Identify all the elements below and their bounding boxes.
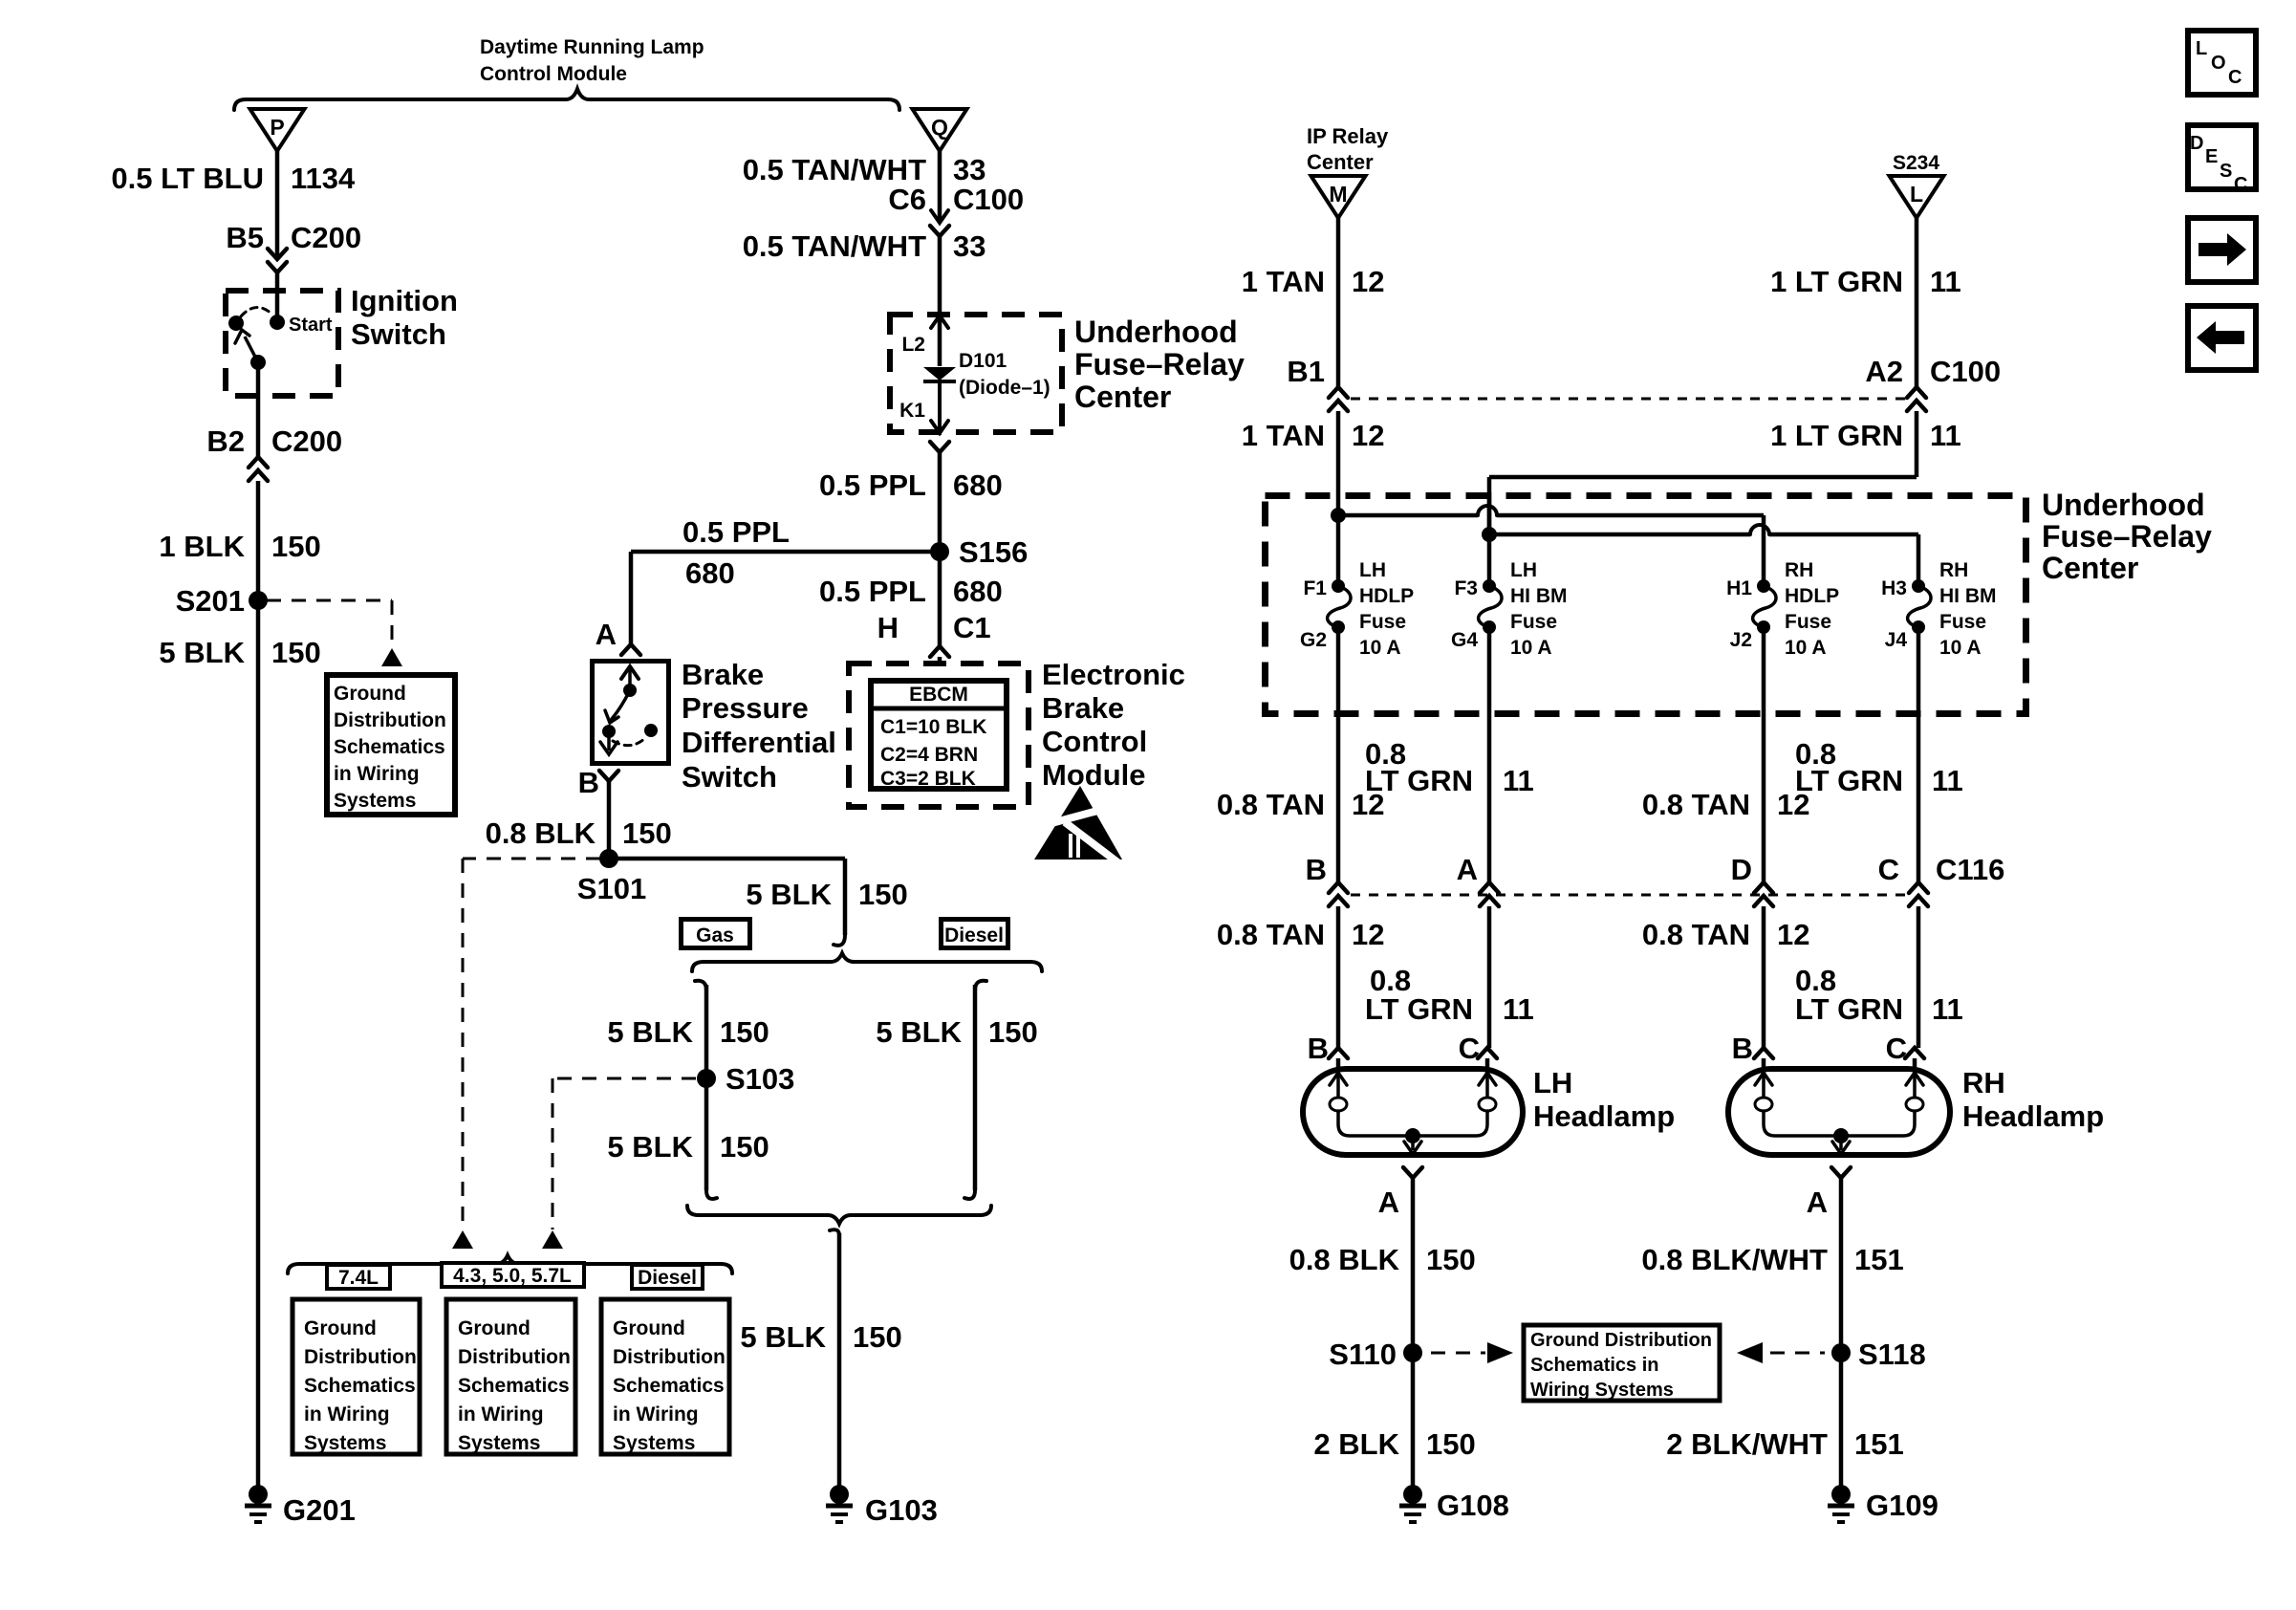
svg-text:1 BLK: 1 BLK [159, 530, 245, 563]
svg-text:150: 150 [853, 1320, 902, 1354]
svg-text:5 BLK: 5 BLK [876, 1015, 962, 1049]
svg-text:0.8 TAN: 0.8 TAN [1217, 918, 1325, 951]
svg-text:C: C [1878, 853, 1899, 886]
svg-text:S: S [2220, 161, 2232, 182]
svg-text:A: A [1807, 1186, 1828, 1219]
svg-text:150: 150 [720, 1015, 769, 1049]
svg-text:LT GRN: LT GRN [1795, 764, 1903, 797]
svg-text:1 TAN: 1 TAN [1242, 419, 1325, 452]
svg-text:11: 11 [1932, 992, 1963, 1026]
svg-text:A2: A2 [1865, 355, 1903, 388]
svg-text:Start: Start [289, 315, 333, 336]
svg-text:12: 12 [1352, 419, 1384, 452]
svg-text:L: L [1910, 182, 1923, 207]
svg-text:Ground: Ground [613, 1317, 685, 1339]
svg-text:0.5 TAN/WHT: 0.5 TAN/WHT [743, 153, 926, 186]
svg-text:B5: B5 [226, 221, 264, 254]
svg-text:Brake: Brake [682, 658, 764, 691]
svg-text:G103: G103 [865, 1493, 938, 1527]
svg-text:1134: 1134 [291, 162, 356, 195]
svg-text:C: C [2234, 174, 2247, 195]
svg-text:S110: S110 [1329, 1338, 1397, 1371]
svg-text:150: 150 [622, 816, 672, 850]
svg-text:L: L [2196, 38, 2207, 59]
svg-text:S118: S118 [1858, 1338, 1926, 1371]
svg-text:S234: S234 [1893, 152, 1939, 174]
svg-text:Systems: Systems [334, 790, 416, 812]
svg-text:A: A [596, 618, 617, 651]
svg-text:Differential: Differential [682, 726, 836, 759]
svg-text:5 BLK: 5 BLK [159, 636, 245, 669]
svg-text:in Wiring: in Wiring [334, 763, 420, 785]
svg-text:150: 150 [271, 636, 321, 669]
svg-text:G109: G109 [1866, 1489, 1939, 1522]
svg-text:0.8 TAN: 0.8 TAN [1642, 788, 1750, 821]
svg-text:F3: F3 [1454, 577, 1478, 599]
svg-text:Systems: Systems [304, 1432, 386, 1454]
svg-text:Diesel: Diesel [638, 1267, 697, 1289]
svg-text:Switch: Switch [682, 760, 777, 794]
svg-text:G201: G201 [283, 1493, 356, 1527]
svg-text:Control: Control [1042, 725, 1147, 758]
svg-text:7.4L: 7.4L [338, 1267, 379, 1289]
svg-text:in Wiring: in Wiring [304, 1403, 390, 1425]
svg-text:Module: Module [1042, 758, 1146, 792]
svg-text:J4: J4 [1885, 629, 1908, 651]
svg-text:Underhood: Underhood [2042, 488, 2205, 522]
svg-text:E: E [2205, 146, 2218, 167]
svg-text:Distribution: Distribution [458, 1346, 571, 1368]
svg-text:Schematics in: Schematics in [1530, 1355, 1659, 1376]
svg-text:G2: G2 [1300, 629, 1327, 651]
svg-text:12: 12 [1352, 265, 1384, 298]
svg-text:Systems: Systems [613, 1432, 695, 1454]
svg-text:B2: B2 [206, 424, 245, 458]
svg-text:A: A [1457, 853, 1478, 886]
svg-text:HI BM: HI BM [1510, 585, 1568, 607]
svg-text:Wiring Systems: Wiring Systems [1530, 1380, 1674, 1401]
svg-text:in Wiring: in Wiring [613, 1403, 699, 1425]
svg-text:150: 150 [858, 878, 908, 911]
svg-text:680: 680 [953, 468, 1003, 502]
svg-text:C1=10 BLK: C1=10 BLK [880, 716, 986, 738]
svg-text:EBCM: EBCM [909, 684, 968, 706]
svg-text:Daytime Running Lamp: Daytime Running Lamp [480, 36, 704, 58]
svg-text:C2=4 BRN: C2=4 BRN [880, 744, 978, 766]
svg-text:0.5 LT BLU: 0.5 LT BLU [111, 162, 264, 195]
svg-text:2 BLK: 2 BLK [1313, 1427, 1399, 1461]
svg-text:Gas: Gas [696, 925, 734, 946]
svg-text:LT GRN: LT GRN [1795, 992, 1903, 1026]
svg-text:Fuse: Fuse [1359, 611, 1406, 633]
svg-text:B: B [1308, 1032, 1329, 1065]
svg-text:HDLP: HDLP [1359, 585, 1414, 607]
svg-text:Schematics: Schematics [334, 736, 445, 758]
svg-text:Pressure: Pressure [682, 691, 809, 725]
svg-text:Center: Center [1074, 380, 1171, 414]
svg-text:151: 151 [1854, 1427, 1904, 1461]
svg-text:RH: RH [1785, 559, 1813, 581]
svg-text:Q: Q [931, 115, 948, 140]
svg-text:Brake: Brake [1042, 691, 1124, 725]
svg-text:Fuse: Fuse [1939, 611, 1986, 633]
svg-text:S101: S101 [577, 872, 646, 905]
svg-text:150: 150 [1426, 1427, 1476, 1461]
svg-text:H3: H3 [1881, 577, 1907, 599]
svg-text:C100: C100 [1930, 355, 2001, 388]
svg-text:G108: G108 [1437, 1489, 1509, 1522]
svg-text:J2: J2 [1730, 629, 1752, 651]
svg-text:11: 11 [1503, 992, 1534, 1026]
svg-text:1 TAN: 1 TAN [1242, 265, 1325, 298]
svg-text:11: 11 [1932, 764, 1963, 797]
svg-text:B: B [578, 766, 599, 799]
svg-text:LH: LH [1533, 1066, 1572, 1099]
svg-text:0.8 BLK/WHT: 0.8 BLK/WHT [1641, 1243, 1828, 1276]
svg-text:Fuse: Fuse [1785, 611, 1831, 633]
svg-text:LT GRN: LT GRN [1365, 764, 1473, 797]
svg-text:A: A [1378, 1186, 1399, 1219]
svg-text:11: 11 [1503, 764, 1534, 797]
svg-text:Distribution: Distribution [613, 1346, 726, 1368]
svg-text:Distribution: Distribution [304, 1346, 417, 1368]
svg-text:11: 11 [1930, 265, 1961, 298]
svg-text:10 A: 10 A [1359, 637, 1401, 659]
svg-text:Switch: Switch [351, 317, 446, 351]
svg-text:0.5 PPL: 0.5 PPL [819, 575, 926, 608]
svg-text:C3=2 BLK: C3=2 BLK [880, 768, 976, 790]
svg-text:Ground Distribution: Ground Distribution [1530, 1330, 1712, 1351]
svg-text:LH: LH [1510, 559, 1537, 581]
svg-text:Underhood: Underhood [1074, 315, 1238, 349]
svg-text:S156: S156 [959, 535, 1028, 569]
svg-text:150: 150 [271, 530, 321, 563]
svg-text:12: 12 [1352, 918, 1384, 951]
svg-text:LT GRN: LT GRN [1365, 992, 1473, 1026]
svg-text:5 BLK: 5 BLK [740, 1320, 826, 1354]
svg-text:150: 150 [720, 1130, 769, 1164]
svg-text:Diesel: Diesel [944, 925, 1004, 946]
svg-text:C116: C116 [1936, 853, 2004, 886]
svg-text:Fuse–Relay: Fuse–Relay [2042, 519, 2212, 554]
svg-text:150: 150 [1426, 1243, 1476, 1276]
svg-text:1 LT GRN: 1 LT GRN [1770, 265, 1903, 298]
svg-text:0.5 PPL: 0.5 PPL [819, 468, 926, 502]
svg-text:Ground: Ground [334, 683, 406, 705]
svg-text:0.8 TAN: 0.8 TAN [1642, 918, 1750, 951]
svg-text:0.8 BLK: 0.8 BLK [486, 816, 596, 850]
svg-text:in Wiring: in Wiring [458, 1403, 544, 1425]
svg-text:K1: K1 [899, 400, 925, 422]
svg-text:Control Module: Control Module [480, 63, 627, 85]
svg-text:(Diode–1): (Diode–1) [959, 377, 1051, 399]
svg-text:C: C [2228, 67, 2242, 88]
svg-text:O: O [2211, 53, 2226, 74]
svg-text:5 BLK: 5 BLK [746, 878, 832, 911]
svg-text:10 A: 10 A [1939, 637, 1982, 659]
svg-text:Schematics: Schematics [613, 1375, 725, 1397]
svg-text:RH: RH [1962, 1066, 2005, 1099]
svg-text:150: 150 [988, 1015, 1038, 1049]
svg-text:Center: Center [1307, 150, 1374, 174]
svg-text:C6: C6 [888, 183, 926, 216]
svg-text:680: 680 [953, 575, 1003, 608]
svg-text:0.8 BLK: 0.8 BLK [1289, 1243, 1400, 1276]
svg-text:10 A: 10 A [1785, 637, 1827, 659]
svg-text:IP Relay: IP Relay [1307, 124, 1389, 148]
svg-text:33: 33 [953, 229, 986, 263]
svg-text:Distribution: Distribution [334, 709, 446, 731]
svg-text:151: 151 [1854, 1243, 1904, 1276]
svg-text:Headlamp: Headlamp [1962, 1099, 2104, 1133]
svg-text:RH: RH [1939, 559, 1968, 581]
svg-text:S201: S201 [176, 584, 245, 618]
svg-text:0.8 TAN: 0.8 TAN [1217, 788, 1325, 821]
svg-text:Electronic: Electronic [1042, 658, 1185, 691]
svg-text:Ground: Ground [304, 1317, 377, 1339]
svg-text:LH: LH [1359, 559, 1386, 581]
svg-text:C200: C200 [291, 221, 361, 254]
svg-text:Center: Center [2042, 551, 2138, 585]
svg-text:4.3, 5.0, 5.7L: 4.3, 5.0, 5.7L [453, 1265, 572, 1287]
svg-text:33: 33 [953, 153, 986, 186]
svg-text:5 BLK: 5 BLK [607, 1015, 693, 1049]
svg-text:H1: H1 [1726, 577, 1752, 599]
svg-text:Ground: Ground [458, 1317, 531, 1339]
svg-text:Fuse: Fuse [1510, 611, 1557, 633]
svg-text:10 A: 10 A [1510, 637, 1552, 659]
svg-text:12: 12 [1777, 918, 1809, 951]
svg-text:Schematics: Schematics [304, 1375, 416, 1397]
svg-text:HDLP: HDLP [1785, 585, 1839, 607]
svg-text:680: 680 [685, 556, 735, 590]
svg-text:0.5 TAN/WHT: 0.5 TAN/WHT [743, 229, 926, 263]
svg-text:HI BM: HI BM [1939, 585, 1997, 607]
svg-text:2 BLK/WHT: 2 BLK/WHT [1666, 1427, 1828, 1461]
svg-text:B: B [1732, 1032, 1753, 1065]
svg-text:D101: D101 [959, 350, 1007, 372]
svg-text:0.5 PPL: 0.5 PPL [682, 515, 790, 549]
svg-text:Ignition: Ignition [351, 284, 458, 317]
svg-text:F1: F1 [1303, 577, 1327, 599]
svg-text:C1: C1 [953, 611, 991, 644]
svg-text:C200: C200 [271, 424, 342, 458]
svg-text:B1: B1 [1287, 355, 1325, 388]
svg-text:B: B [1306, 853, 1327, 886]
svg-text:C100: C100 [953, 183, 1024, 216]
svg-text:Headlamp: Headlamp [1533, 1099, 1675, 1133]
svg-text:1 LT GRN: 1 LT GRN [1770, 419, 1903, 452]
svg-text:Fuse–Relay: Fuse–Relay [1074, 347, 1245, 381]
svg-text:11: 11 [1930, 419, 1961, 452]
svg-text:H: H [877, 611, 899, 644]
svg-text:S103: S103 [726, 1062, 794, 1096]
svg-text:G4: G4 [1451, 629, 1478, 651]
svg-text:L2: L2 [901, 334, 925, 356]
svg-text:5 BLK: 5 BLK [607, 1130, 693, 1164]
svg-text:M: M [1329, 182, 1347, 207]
svg-text:Schematics: Schematics [458, 1375, 570, 1397]
svg-text:D: D [2190, 133, 2203, 154]
svg-text:P: P [270, 115, 284, 140]
svg-text:Systems: Systems [458, 1432, 540, 1454]
svg-text:D: D [1731, 853, 1752, 886]
